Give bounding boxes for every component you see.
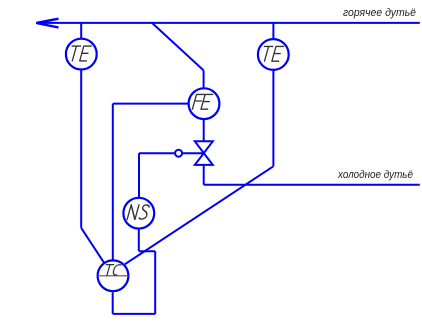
wire: TE1 riser to hot pipe — [80, 23, 82, 39]
svg-text:горячее дутьё: горячее дутьё — [343, 7, 416, 19]
instrument TC circle — [98, 260, 129, 291]
wire: actuator stem right — [182, 152, 204, 154]
wire: valve outlet — [203, 165, 205, 185]
label NS — [127, 205, 150, 220]
wire: FE to valve — [203, 120, 205, 142]
wire: TE1 diagonal to TC — [81, 228, 104, 263]
wire: NS drop — [138, 229, 140, 252]
wire: TE1 drop — [80, 70, 82, 228]
wire: FE left drop to TC top — [112, 104, 114, 260]
wire: loop box right side — [154, 251, 156, 314]
wire: TE2 diagonal down to TC — [125, 166, 274, 264]
TC panel-mount midline — [98, 275, 129, 277]
instrument NS circle — [123, 198, 154, 229]
instrument FE circle — [189, 88, 220, 119]
label TC — [103, 265, 121, 276]
svg-text:холодное дутьё: холодное дутьё — [337, 169, 413, 181]
wire: loop box up to TC bottom — [112, 292, 114, 314]
actuator circle — [175, 150, 182, 157]
wire: node J to loop box top — [139, 250, 155, 252]
wire: TE2 drop — [272, 70, 274, 166]
valve body (bowtie) — [195, 141, 213, 165]
label FE — [192, 94, 212, 109]
wire: FE riser — [203, 70, 205, 87]
wire: actuator stem left — [139, 152, 175, 154]
instrument TE1 circle — [66, 39, 97, 70]
wire: loop box bottom — [113, 313, 156, 315]
wire: FE left line — [113, 103, 188, 105]
label TE2 — [260, 46, 283, 61]
hot blast pipe — [37, 22, 420, 24]
flow direction arrow — [36, 19, 58, 28]
wire: NS riser — [138, 153, 140, 198]
instrument TE2 circle — [258, 39, 289, 70]
wire: TE2 riser to hot pipe — [272, 23, 274, 39]
cold blast pipe — [204, 184, 420, 186]
wire: branch diagonal from hot pipe to FE — [152, 23, 204, 71]
label TE1 — [68, 46, 91, 61]
